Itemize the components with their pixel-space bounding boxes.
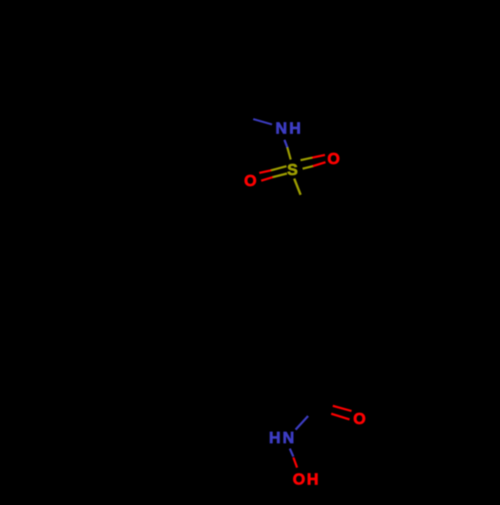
wire bond N-S (sulfur half, olive) [287,147,290,159]
atom label OH (hydroxyl) [293,472,319,489]
bond S=O left, lower line O half [261,177,273,181]
wire bond C-N amide (N half, blue) [296,416,309,430]
svg-text:H: H [269,430,281,447]
svg-text:O: O [327,151,339,168]
bond S=O left, lower line S half [273,174,287,178]
bond S=O right, lower line S half [303,166,313,169]
wire bond N-S (blue half) [284,140,287,148]
svg-text:O: O [244,173,256,190]
svg-text:H: H [307,472,319,489]
svg-text:O: O [353,411,365,428]
atom label NH (sulfonamide nitrogen) [276,121,301,138]
bond S=O right, upper line S half [301,158,313,161]
svg-text:H: H [289,121,301,138]
svg-text:S: S [287,162,298,179]
bond C=O carbonyl, upper line O half [333,406,352,411]
svg-text:O: O [293,472,305,489]
wire bond C-N (methyl to amide N, N half, blue) [253,119,272,124]
bond S=O left, upper line S half [271,166,286,170]
bond S=O right, upper line O half [312,155,325,158]
wire bond N-O (N half, blue) [290,449,294,457]
bond S=O right, lower line O half [313,162,326,166]
svg-text:N: N [283,430,295,447]
bond S=O left, upper line O half [259,170,271,173]
wire bond N-O (O half, red) [293,458,297,468]
atom label HN (hydroxamic nitrogen) [269,430,294,447]
svg-text:N: N [276,121,288,138]
wire bond S-C (sulfur half, olive) [294,179,300,195]
bond C=O carbonyl, lower line O half [331,414,349,420]
